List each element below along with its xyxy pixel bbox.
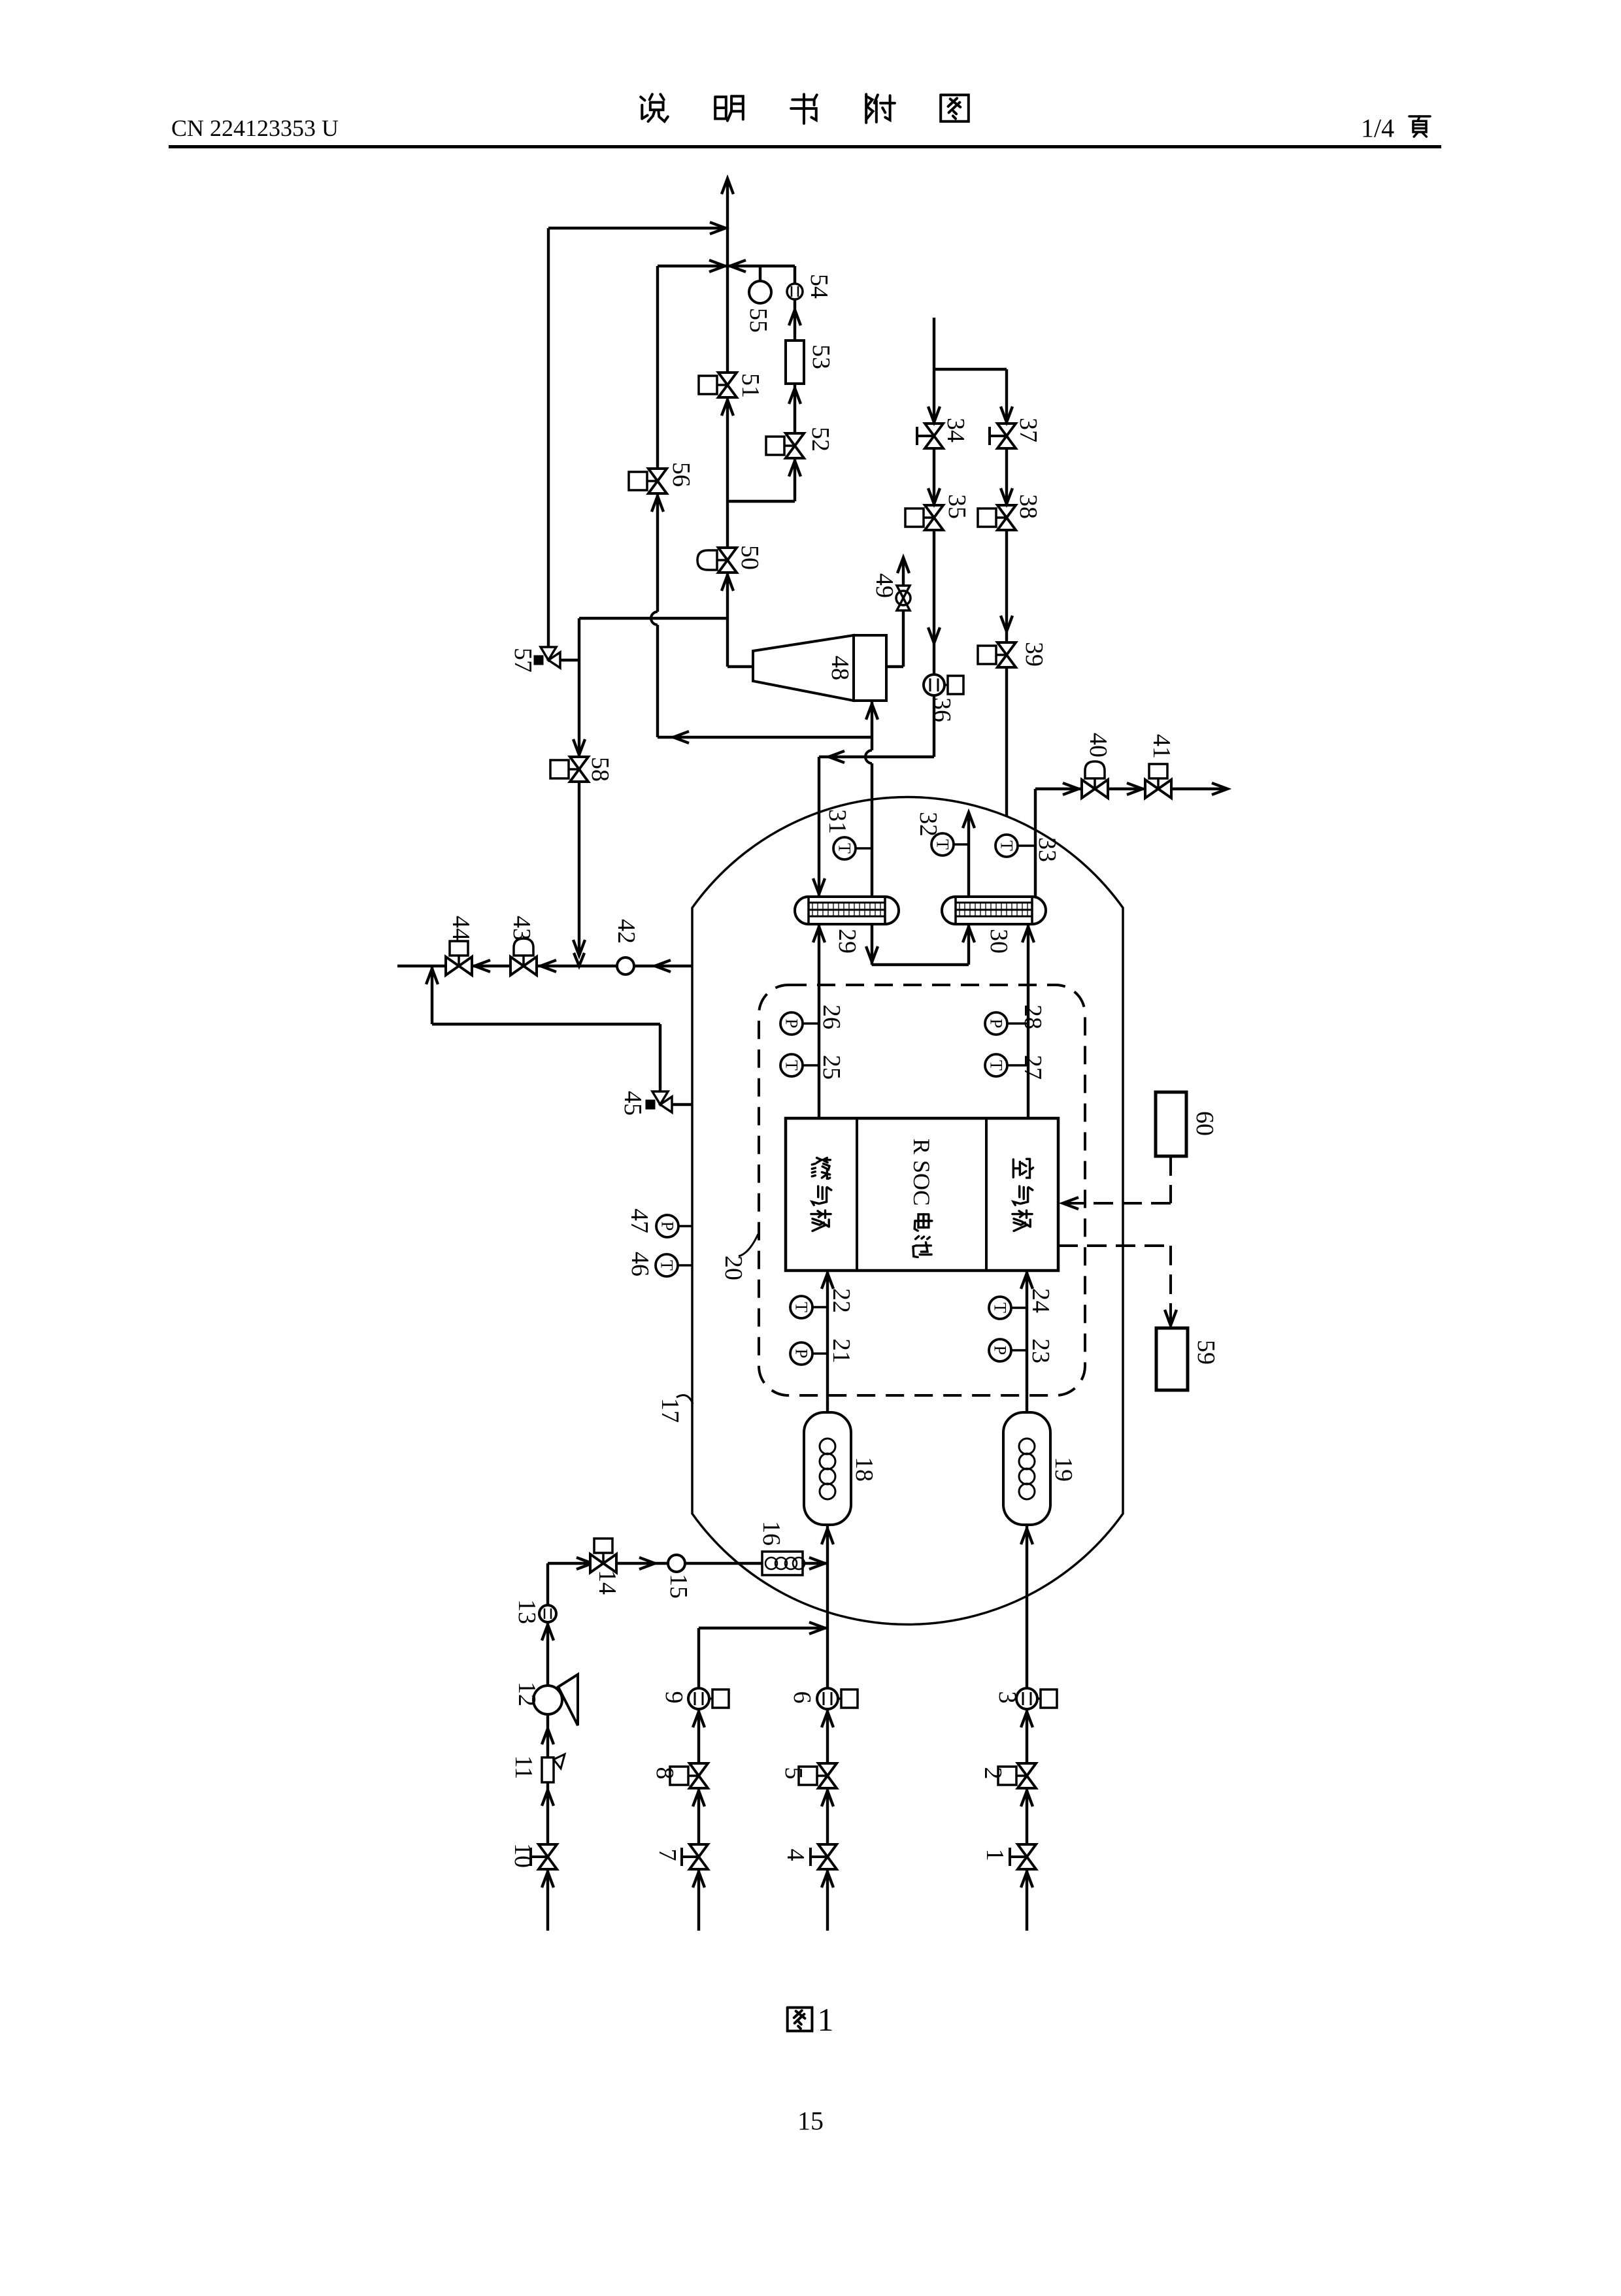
svg-text:14: 14 [593,1570,621,1595]
svg-text:47: 47 [626,1208,653,1233]
svg-text:34: 34 [942,418,969,442]
svg-text:59: 59 [1192,1340,1220,1365]
svg-text:46: 46 [626,1252,654,1276]
svg-text:3: 3 [994,1691,1021,1704]
svg-text:38: 38 [1014,494,1042,519]
svg-text:53: 53 [807,344,835,369]
svg-text:27: 27 [1019,1055,1046,1080]
svg-text:2: 2 [979,1767,1007,1780]
svg-text:20: 20 [720,1256,747,1280]
svg-text:42: 42 [612,919,640,944]
svg-text:57: 57 [509,648,537,673]
svg-text:56: 56 [667,462,695,487]
svg-text:17: 17 [656,1398,684,1423]
svg-text:40: 40 [1084,733,1112,757]
svg-text:15: 15 [797,2106,824,2136]
svg-text:R SOC: R SOC [909,1139,935,1206]
svg-text:44: 44 [447,916,475,940]
svg-text:33: 33 [1033,837,1061,862]
svg-text:6: 6 [788,1691,816,1704]
svg-text:T: T [997,840,1016,851]
svg-text:52: 52 [807,427,834,452]
svg-text:37: 37 [1014,418,1042,442]
svg-text:31: 31 [824,809,851,834]
svg-text:12: 12 [513,1682,541,1706]
svg-text:1/4: 1/4 [1361,114,1394,143]
svg-text:22: 22 [827,1288,855,1313]
svg-text:26: 26 [818,1005,845,1029]
svg-text:T: T [933,839,952,850]
svg-text:18: 18 [850,1457,878,1482]
svg-text:50: 50 [736,545,763,570]
svg-text:30: 30 [985,929,1012,954]
svg-text:T: T [792,1302,811,1312]
svg-text:11: 11 [510,1755,537,1780]
svg-text:9: 9 [660,1691,688,1704]
svg-text:29: 29 [833,929,861,954]
svg-text:23: 23 [1027,1339,1054,1363]
svg-text:1: 1 [818,2001,834,2038]
svg-text:13: 13 [513,1599,541,1624]
svg-text:45: 45 [619,1091,646,1116]
svg-text:5: 5 [780,1767,807,1780]
svg-text:7: 7 [654,1849,681,1861]
svg-text:T: T [835,843,854,854]
svg-text:36: 36 [928,697,956,722]
svg-text:35: 35 [943,494,971,519]
svg-text:43: 43 [508,916,535,940]
svg-text:8: 8 [651,1767,678,1780]
svg-text:19: 19 [1050,1457,1077,1482]
svg-text:P: P [782,1019,801,1028]
svg-text:CN 224123353 U: CN 224123353 U [171,115,339,141]
svg-text:P: P [991,1346,1010,1355]
svg-text:24: 24 [1027,1288,1054,1313]
svg-text:48: 48 [826,656,854,680]
svg-text:54: 54 [805,274,833,299]
svg-text:39: 39 [1020,642,1048,667]
svg-text:4: 4 [782,1849,809,1861]
svg-text:T: T [782,1060,801,1071]
svg-text:28: 28 [1019,1005,1046,1029]
svg-text:49: 49 [871,573,898,598]
svg-text:P: P [792,1349,811,1358]
svg-text:25: 25 [818,1055,845,1080]
svg-text:T: T [987,1060,1006,1071]
svg-text:15: 15 [665,1574,692,1599]
svg-text:51: 51 [737,373,764,398]
svg-text:10: 10 [509,1843,537,1868]
svg-text:1: 1 [981,1849,1009,1861]
svg-text:32: 32 [914,812,942,837]
svg-text:16: 16 [758,1521,785,1546]
svg-text:P: P [658,1222,677,1231]
svg-text:55: 55 [744,308,772,333]
svg-text:T: T [991,1303,1010,1313]
svg-text:21: 21 [827,1339,855,1363]
svg-text:P: P [987,1019,1006,1028]
svg-text:T: T [658,1260,677,1271]
svg-text:41: 41 [1148,734,1175,759]
svg-text:58: 58 [586,757,614,782]
svg-text:60: 60 [1191,1111,1218,1136]
